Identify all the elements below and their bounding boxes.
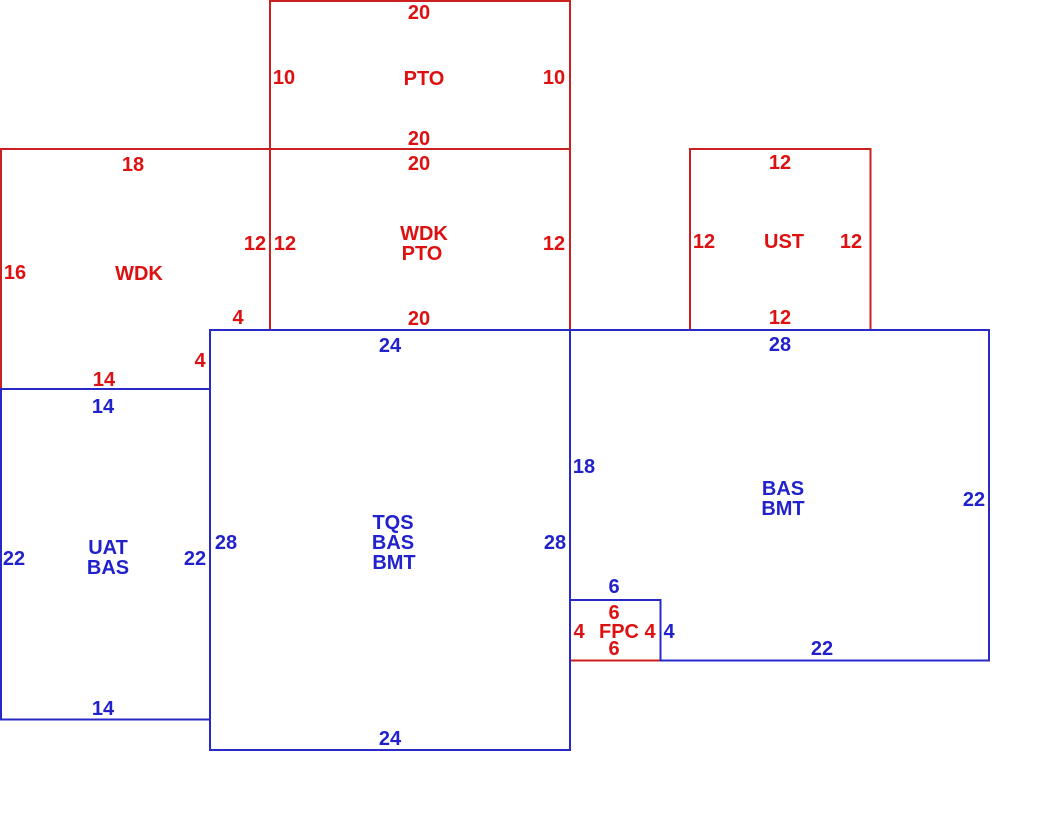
svg-text:20: 20 [408, 308, 430, 330]
svg-text:14: 14 [92, 698, 115, 720]
svg-text:4: 4 [644, 621, 656, 643]
svg-text:WDK: WDK [115, 263, 163, 285]
svg-text:4: 4 [663, 621, 675, 643]
svg-text:UST: UST [764, 231, 804, 253]
svg-text:BAS: BAS [87, 557, 129, 579]
svg-text:BAS: BAS [762, 478, 804, 500]
svg-text:6: 6 [608, 638, 619, 660]
svg-text:20: 20 [408, 128, 430, 150]
svg-text:BMT: BMT [372, 552, 415, 574]
svg-text:14: 14 [93, 369, 116, 391]
svg-text:PTO: PTO [402, 243, 443, 265]
svg-text:18: 18 [573, 456, 595, 478]
svg-text:24: 24 [379, 728, 402, 750]
svg-text:22: 22 [963, 489, 985, 511]
room TQS/BAS/BMT outline [210, 330, 570, 750]
svg-text:10: 10 [543, 67, 565, 89]
room WDK outline [1, 149, 270, 389]
room FPC outline [570, 600, 661, 661]
room PTO outline [270, 1, 570, 149]
room UAT/BAS outline [1, 389, 210, 720]
svg-text:12: 12 [543, 233, 565, 255]
svg-text:28: 28 [544, 532, 566, 554]
room BAS/BMT outline [570, 330, 989, 661]
svg-text:22: 22 [184, 548, 206, 570]
svg-text:12: 12 [693, 231, 715, 253]
svg-text:24: 24 [379, 335, 402, 357]
svg-text:12: 12 [274, 233, 296, 255]
svg-text:20: 20 [408, 153, 430, 175]
svg-text:12: 12 [769, 152, 791, 174]
svg-text:18: 18 [122, 154, 144, 176]
svg-text:14: 14 [92, 396, 115, 418]
svg-text:BAS: BAS [372, 532, 414, 554]
svg-text:12: 12 [244, 233, 266, 255]
svg-text:28: 28 [215, 532, 237, 554]
svg-text:6: 6 [608, 576, 619, 598]
svg-text:TQS: TQS [372, 512, 413, 534]
svg-text:4: 4 [194, 350, 206, 372]
room UST outline [690, 149, 871, 330]
room WDK/PTO outline [270, 149, 570, 330]
svg-text:BMT: BMT [761, 498, 804, 520]
svg-text:22: 22 [811, 638, 833, 660]
svg-text:20: 20 [408, 2, 430, 24]
svg-text:PTO: PTO [404, 68, 445, 90]
svg-text:WDK: WDK [400, 223, 448, 245]
svg-text:10: 10 [273, 67, 295, 89]
svg-text:12: 12 [840, 231, 862, 253]
svg-text:4: 4 [573, 621, 585, 643]
svg-text:12: 12 [769, 307, 791, 329]
svg-text:22: 22 [3, 548, 25, 570]
svg-text:28: 28 [769, 334, 791, 356]
svg-text:4: 4 [232, 307, 244, 329]
svg-text:16: 16 [4, 262, 26, 284]
svg-text:UAT: UAT [88, 537, 128, 559]
